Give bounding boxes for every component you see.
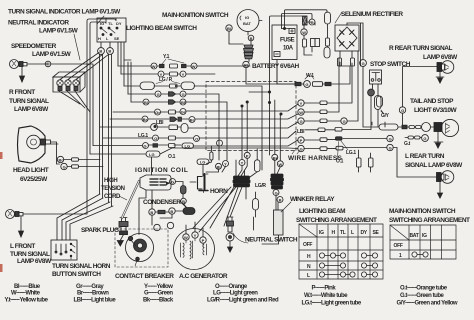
row G parts	[142, 116, 148, 122]
wire row A	[118, 65, 250, 67]
wire battery bottom region	[277, 22, 352, 84]
wire generator risers	[186, 222, 203, 237]
contact breaker	[126, 222, 174, 266]
wire horn circles	[216, 163, 222, 169]
svg-text:P: P	[300, 138, 303, 143]
svg-text:Y------Yellow: Y------Yellow	[144, 284, 173, 290]
row C bullet	[170, 84, 178, 88]
wire LG1 right leader	[341, 141, 348, 150]
svg-text:Bl------Blue: Bl------Blue	[14, 284, 41, 290]
lamp R rear turn signal	[436, 61, 454, 83]
svg-text:LG/R------Light green and Red: LG/R------Light green and Red	[207, 298, 279, 304]
capsule connector tall lower	[324, 47, 330, 58]
row A parts	[151, 63, 157, 69]
svg-text:BATTERY 6V6AH: BATTERY 6V6AH	[252, 63, 300, 70]
wire head light G run	[67, 166, 103, 168]
svg-text:Br------Brown: Br------Brown	[77, 291, 109, 297]
wire L front feed	[23, 213, 87, 215]
connector circle on R rear drop	[399, 107, 405, 113]
table 2 contact circles row 1	[412, 252, 428, 257]
svg-text:LIGHTING BEAM: LIGHTING BEAM	[299, 208, 345, 215]
wire rectifier to stop switch	[347, 23, 363, 66]
harness wrap left	[233, 176, 250, 187]
svg-text:Y: Y	[182, 72, 185, 77]
svg-text:DY: DY	[361, 230, 368, 236]
junction dots	[246, 101, 248, 103]
svg-text:G: G	[275, 191, 278, 196]
tail and stop light	[402, 119, 459, 148]
connector rect column x304	[303, 39, 307, 47]
svg-text:TENSION: TENSION	[101, 186, 125, 192]
svg-text:Y: Y	[300, 101, 303, 106]
small rects lower right of center	[357, 158, 362, 167]
svg-text:G: G	[311, 20, 314, 25]
svg-text:LG.t------Light green tube: LG.t------Light green tube	[302, 301, 362, 307]
svg-text:O------Orange: O------Orange	[215, 284, 248, 290]
speedometer bulb 3	[73, 80, 79, 91]
svg-text:G: G	[63, 165, 66, 170]
svg-text:LG: LG	[185, 143, 191, 148]
svg-text:Gr------Gray: Gr------Gray	[76, 284, 104, 290]
svg-text:TAIL AND STOP: TAIL AND STOP	[410, 98, 454, 105]
svg-text:Bl: Bl	[144, 100, 148, 105]
svg-text:LIGHT 6V3/10W: LIGHT 6V3/10W	[414, 107, 458, 114]
wire pilot branch	[51, 64, 93, 146]
svg-text:G/Y: G/Y	[381, 113, 390, 119]
svg-text:LAMP 6V8W: LAMP 6V8W	[14, 106, 49, 113]
svg-text:G: G	[389, 137, 392, 142]
svg-text:L REAR TURN: L REAR TURN	[405, 153, 445, 160]
svg-text:O.1: O.1	[336, 159, 344, 165]
svg-text:R FRONT: R FRONT	[9, 89, 35, 96]
svg-text:SPARK PLUG: SPARK PLUG	[81, 227, 119, 234]
capsule connector LG/R right	[253, 160, 261, 217]
svg-text:TURN SIGNAL HORN: TURN SIGNAL HORN	[52, 263, 111, 270]
svg-text:SWITCHING ARRANGEMENT: SWITCHING ARRANGEMENT	[296, 217, 377, 224]
circle Bl left of ignition	[226, 25, 232, 31]
capsule connector tall upper	[325, 12, 331, 24]
wire row B	[121, 73, 215, 75]
wire coil bottom	[139, 190, 146, 218]
svg-text:P: P	[246, 153, 249, 158]
wire speedometer bulb drops	[59, 91, 90, 112]
wire indicator loop inner	[90, 18, 106, 154]
svg-text:HORN: HORN	[210, 188, 228, 195]
svg-text:LG / R: LG / R	[159, 77, 173, 83]
svg-text:TURN SIGNAL INDICATOR LAMP 6V1: TURN SIGNAL INDICATOR LAMP 6V1.5W	[8, 9, 121, 16]
connector circle on center vertical	[217, 140, 223, 146]
wire row D	[128, 94, 219, 160]
wire harness dashed boundary	[206, 82, 296, 151]
wire battery top bus 1	[285, 10, 328, 29]
svg-text:Y: Y	[194, 233, 197, 238]
wire tail row links	[398, 127, 434, 138]
svg-text:CORD: CORD	[104, 194, 121, 200]
wire row K	[90, 148, 298, 154]
svg-text:TL: TL	[108, 21, 113, 26]
connector circle G near fuse	[309, 19, 315, 25]
wire row F	[113, 104, 298, 112]
svg-text:Br: Br	[143, 117, 148, 122]
leader spark plug	[116, 227, 121, 230]
wire row I	[103, 131, 296, 138]
svg-text:Y: Y	[241, 161, 244, 166]
red page marks	[0, 152, 3, 272]
svg-text:Br: Br	[59, 158, 64, 163]
wire row G	[110, 114, 298, 119]
svg-text:LIGHTING BEAM SWITCH: LIGHTING BEAM SWITCH	[126, 25, 197, 32]
row H parts	[151, 124, 158, 131]
svg-text:L: L	[307, 273, 310, 279]
svg-text:O.t------Orange tube: O.t------Orange tube	[400, 286, 448, 292]
svg-text:MAIN-IGNITION SWITCH: MAIN-IGNITION SWITCH	[162, 12, 229, 19]
svg-text:G: G	[305, 82, 308, 87]
svg-text:SE: SE	[373, 230, 380, 236]
wire row H	[100, 122, 298, 128]
svg-text:G: G	[389, 146, 392, 151]
svg-text:HEAD LIGHT: HEAD LIGHT	[13, 167, 49, 174]
svg-text:P: P	[202, 238, 205, 243]
svg-text:H: H	[98, 36, 101, 41]
lamp speedometer pilot	[45, 61, 51, 67]
wire row A leader Y1	[162, 59, 184, 64]
wire right column runs	[304, 51, 437, 177]
svg-text:O: O	[154, 136, 157, 141]
svg-text:W.t------White tube: W.t------White tube	[304, 293, 348, 299]
svg-text:G: G	[157, 92, 160, 97]
svg-text:B: B	[170, 209, 173, 214]
turn feed circle lower	[387, 144, 393, 150]
svg-text:Bl: Bl	[181, 100, 185, 105]
svg-text:TURN SIGNAL: TURN SIGNAL	[10, 251, 50, 258]
row F parts	[155, 109, 161, 115]
svg-text:Y.t------Yellow tube: Y.t------Yellow tube	[5, 298, 49, 304]
wire head light Br run	[64, 159, 100, 161]
lighting beam switch terminals	[98, 42, 114, 54]
svg-text:BUTTON SWITCH: BUTTON SWITCH	[52, 271, 101, 278]
right column bullets	[320, 101, 327, 105]
svg-text:LBl------Light blue: LBl------Light blue	[74, 298, 117, 304]
wire tail feed left	[372, 122, 385, 127]
wire O1 right leader	[338, 142, 339, 160]
speedometer case	[53, 72, 85, 92]
svg-text:G/Y------Green and Yellow: G/Y------Green and Yellow	[397, 301, 458, 307]
svg-text:B: B	[250, 36, 253, 41]
row E parts	[143, 99, 149, 105]
svg-text:Bk: Bk	[273, 155, 279, 160]
wire stop switch column	[363, 67, 384, 128]
harness wrap right column	[271, 174, 284, 189]
wire head light to terminals	[51, 142, 60, 164]
main ignition connector stack	[244, 45, 254, 59]
svg-text:Br: Br	[190, 118, 195, 123]
svg-text:O: O	[195, 137, 198, 142]
svg-text:OFF: OFF	[394, 243, 403, 249]
wire bundle terminal pair 2	[109, 54, 112, 206]
svg-text:STOP SWITCH: STOP SWITCH	[370, 61, 411, 68]
center right ring terminals	[244, 152, 250, 158]
row J parts	[143, 143, 149, 149]
selenium rectifier	[335, 12, 359, 51]
svg-text:SELENIUM RECTIFIER: SELENIUM RECTIFIER	[341, 11, 403, 18]
wire row C	[124, 86, 262, 170]
wire bundle box drops	[118, 42, 131, 102]
wire manifold outputs	[193, 187, 246, 232]
svg-text:G: G	[401, 108, 404, 113]
row B parts	[158, 71, 164, 77]
circle G mid right	[341, 118, 347, 124]
svg-text:W: W	[279, 162, 283, 167]
svg-text:TL: TL	[340, 230, 346, 236]
svg-text:B: B	[150, 210, 153, 215]
svg-text:W: W	[152, 64, 156, 69]
svg-text:LG: LG	[149, 152, 155, 157]
lamp R front turn signal	[10, 60, 49, 83]
right column circles	[298, 100, 304, 106]
svg-text:G: G	[300, 119, 303, 124]
condenser	[149, 202, 195, 216]
stop switch column capsule G/Y	[375, 96, 399, 131]
svg-text:CONDENSER: CONDENSER	[143, 199, 181, 206]
wire bundle terminal pair 1	[100, 54, 103, 198]
speedometer bulb 2	[65, 80, 71, 91]
svg-text:B: B	[99, 49, 102, 54]
row C capsule left	[140, 82, 155, 90]
svg-text:MAIN-IGNITION SWITCH: MAIN-IGNITION SWITCH	[389, 208, 456, 215]
svg-text:L: L	[351, 230, 354, 236]
winker relay body	[273, 190, 291, 236]
small fuse rects right	[338, 58, 342, 66]
svg-text:LG/R: LG/R	[255, 183, 266, 189]
svg-text:O.1: O.1	[168, 154, 176, 160]
svg-text:G: G	[171, 180, 174, 185]
svg-text:BAT: BAT	[410, 233, 419, 239]
table 2 main ignition grid	[390, 225, 456, 259]
svg-text:LBl: LBl	[297, 129, 305, 135]
turn feed circle upper	[387, 135, 393, 141]
svg-text:NEUTRAL INDICATOR: NEUTRAL INDICATOR	[8, 20, 69, 27]
svg-text:Bl: Bl	[227, 26, 231, 31]
svg-text:SWITCHING ARRANGEMENT: SWITCHING ARRANGEMENT	[389, 217, 470, 224]
svg-text:Bl: Bl	[217, 164, 221, 169]
svg-text:G.t: G.t	[404, 141, 411, 147]
svg-text:G: G	[182, 92, 185, 97]
connector rect center	[210, 152, 213, 160]
wire speedometer bulb risers	[60, 53, 108, 80]
svg-text:LAMP 6V8W: LAMP 6V8W	[423, 54, 458, 61]
wire battery top bus 2	[282, 14, 313, 29]
svg-text:LG.1: LG.1	[346, 150, 356, 156]
wire battery top bus 3	[270, 16, 303, 155]
spark plug	[117, 218, 128, 247]
wire leader lamp label	[74, 16, 104, 60]
horn	[198, 174, 209, 193]
svg-text:W: W	[299, 110, 303, 115]
svg-text:IG: IG	[422, 233, 427, 239]
svg-text:LG: LG	[200, 159, 206, 164]
table 1 contact circles row L	[319, 272, 377, 277]
svg-text:SE: SE	[114, 36, 120, 41]
head light terminals	[51, 144, 79, 170]
wire neutral label leader	[233, 233, 248, 243]
main ignition switch	[237, 10, 259, 42]
circle Bl before battery label	[243, 61, 249, 67]
contact breaker dashed enclosure	[115, 229, 168, 267]
wire ignition left	[229, 21, 295, 85]
row C capsule right	[181, 82, 195, 90]
tail light second row	[408, 135, 428, 142]
wire horn feeds	[190, 165, 226, 183]
wire row E	[131, 102, 227, 160]
row I parts	[153, 135, 159, 141]
wire center right verticals	[242, 60, 280, 178]
stop switch lower connector	[368, 89, 383, 107]
svg-text:LG.1: LG.1	[138, 133, 148, 139]
wire coil feed	[151, 157, 153, 175]
svg-text:W------White: W------White	[11, 291, 41, 297]
svg-text:Bl: Bl	[244, 63, 248, 68]
connector circle W below fuse	[301, 29, 307, 35]
svg-text:CONTACT BREAKER: CONTACT BREAKER	[115, 273, 174, 280]
svg-text:Gr: Gr	[155, 110, 160, 115]
ignition coil body	[140, 175, 171, 190]
wire LG/R label leaders	[156, 82, 180, 84]
svg-text:NEUTRAL SWITCH: NEUTRAL SWITCH	[245, 237, 298, 244]
svg-text:B: B	[279, 198, 282, 203]
W.1 connector row	[295, 75, 331, 87]
double square terminal	[311, 39, 320, 47]
svg-text:G: G	[362, 61, 365, 66]
svg-text:W: W	[302, 30, 306, 35]
connector rect x326	[326, 38, 330, 46]
svg-text:HIGH: HIGH	[104, 178, 117, 184]
svg-text:R REAR TURN SIGNAL: R REAR TURN SIGNAL	[389, 45, 453, 52]
table 1 contact circles row H	[319, 253, 377, 258]
svg-text:Y.1: Y.1	[163, 54, 170, 60]
capsule LG above horn	[197, 159, 209, 165]
row D parts	[155, 91, 161, 97]
fuse element	[303, 16, 308, 25]
svg-text:6V25/25W: 6V25/25W	[20, 176, 48, 183]
lamp L front turn signal	[6, 210, 24, 238]
svg-text:LAMP 6V1.5W: LAMP 6V1.5W	[32, 51, 72, 58]
svg-text:OFF: OFF	[303, 242, 312, 248]
wire row J	[93, 140, 298, 146]
svg-text:G: G	[343, 119, 346, 124]
wire manifold left feeds	[236, 158, 247, 176]
svg-text:A.C GENERATOR: A.C GENERATOR	[179, 273, 228, 280]
wire horn button risers	[57, 194, 113, 240]
svg-text:G: G	[144, 144, 147, 149]
wire indicator loop outer	[87, 18, 116, 214]
stop switch box	[370, 70, 382, 84]
svg-text:W: W	[184, 235, 188, 240]
wire relay column	[262, 160, 280, 244]
svg-text:G: G	[423, 136, 426, 141]
row K capsule LG	[146, 151, 160, 157]
svg-text:LAMP 6V8W: LAMP 6V8W	[17, 258, 52, 265]
table 1 contact circles row N	[319, 263, 377, 268]
wire harness label leaders	[292, 150, 300, 154]
A.C generator	[174, 229, 215, 270]
svg-text:Gr: Gr	[181, 110, 186, 115]
table 1 lighting beam grid	[299, 224, 383, 279]
svg-text:LAMP 6V1.5W: LAMP 6V1.5W	[39, 28, 79, 35]
svg-text:BAT: BAT	[243, 21, 251, 26]
svg-text:G.t------Green tube: G.t------Green tube	[400, 293, 445, 299]
svg-text:WINKER RELAY: WINKER RELAY	[290, 196, 335, 203]
svg-text:W: W	[192, 64, 196, 69]
battery box	[272, 25, 297, 60]
ignition coil terminal	[170, 179, 187, 208]
lighting beam switch box	[97, 18, 126, 42]
svg-text:B: B	[108, 49, 111, 54]
svg-text:IG: IG	[319, 230, 324, 236]
wire condenser to breaker	[139, 190, 172, 235]
wire capsule LGR right column	[253, 217, 255, 230]
svg-text:DY: DY	[116, 21, 122, 26]
svg-text:LG------Light green: LG------Light green	[213, 291, 258, 297]
stop switch terminal G	[360, 60, 367, 67]
svg-text:LBl: LBl	[156, 120, 164, 126]
svg-text:SIGNAL LAMP 6V8W: SIGNAL LAMP 6V8W	[405, 162, 463, 169]
svg-text:WIRE HARNESS: WIRE HARNESS	[288, 155, 343, 162]
svg-text:L FRONT: L FRONT	[10, 243, 35, 250]
head light reflector	[18, 126, 51, 163]
svg-text:G: G	[300, 147, 303, 152]
wire R rear turn feed	[403, 67, 438, 126]
svg-text:IG: IG	[245, 15, 249, 20]
svg-text:W.1: W.1	[306, 73, 314, 79]
svg-text:SPEEDOMETER: SPEEDOMETER	[11, 43, 57, 50]
svg-text:FUSE: FUSE	[280, 38, 295, 44]
svg-text:G------Green: G------Green	[144, 291, 173, 297]
turn signal horn button switch box	[51, 240, 77, 260]
svg-text:B: B	[182, 199, 185, 204]
speedometer bulb 1	[57, 80, 63, 91]
svg-text:Y: Y	[224, 162, 227, 167]
svg-text:TURN SIGNAL: TURN SIGNAL	[9, 98, 49, 105]
neutral switch	[226, 217, 234, 252]
svg-text:IGNITION COIL: IGNITION COIL	[135, 167, 188, 174]
lamp L rear turn signal	[437, 171, 454, 198]
svg-text:Bk------Black: Bk------Black	[143, 298, 174, 304]
svg-text:P------Pink: P------Pink	[312, 286, 337, 292]
high tension cord	[122, 181, 139, 218]
svg-text:10A: 10A	[283, 46, 294, 52]
svg-text:IG: IG	[100, 21, 104, 26]
